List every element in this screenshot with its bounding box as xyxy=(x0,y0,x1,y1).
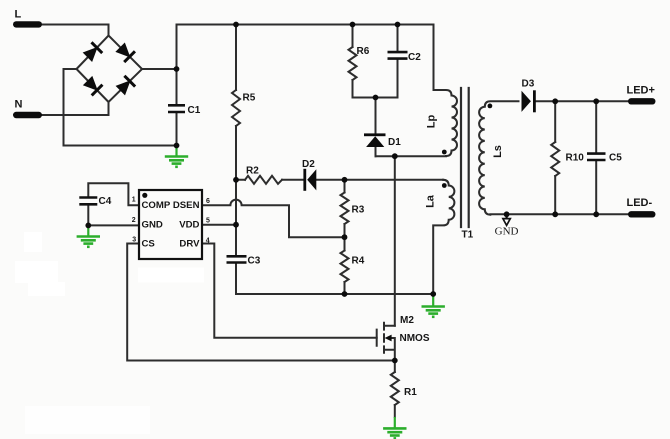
ground under C4 xyxy=(77,225,100,246)
svg-text:GND: GND xyxy=(495,226,519,238)
node VDD xyxy=(233,222,239,228)
node drain xyxy=(392,153,398,159)
node R3 R4 DSEN xyxy=(342,234,348,240)
wire R5 branch xyxy=(235,25,237,180)
svg-text:T1: T1 xyxy=(462,230,474,241)
node Ls GND xyxy=(504,211,510,217)
capacitor C5 plates xyxy=(587,154,606,160)
resistor R6 zigzag xyxy=(349,47,357,80)
diode bridge D-topright xyxy=(115,42,135,62)
svg-text:Ls: Ls xyxy=(492,145,504,158)
wire R4 leads xyxy=(344,237,346,294)
wire R6 leads xyxy=(353,25,398,98)
diode bridge D-bottomright xyxy=(115,76,135,96)
ground under C1 xyxy=(165,146,188,167)
node C1 bottom xyxy=(174,143,180,149)
white patch bottom left band xyxy=(25,406,150,434)
wire bridge right vertex to C1 node xyxy=(142,68,177,70)
ground GND arrow secondary xyxy=(503,214,510,225)
wire C1 branch vertical xyxy=(176,25,178,146)
resistor R2 zigzag xyxy=(245,176,282,184)
svg-text:CS: CS xyxy=(142,239,156,250)
node R6 top xyxy=(350,22,356,28)
svg-text:M2: M2 xyxy=(400,315,414,326)
node R5 top xyxy=(233,22,239,28)
resistor R3 zigzag xyxy=(341,193,349,225)
svg-text:D3: D3 xyxy=(522,79,535,90)
svg-text:NMOS: NMOS xyxy=(400,333,430,344)
wire VDD pin5 xyxy=(202,224,236,226)
svg-text:5: 5 xyxy=(206,217,210,224)
capacitor C1 plates xyxy=(168,105,185,112)
wire R3 leads xyxy=(344,180,346,237)
wire D2-R3 node to aux winding La xyxy=(345,179,444,181)
svg-text:C4: C4 xyxy=(99,196,112,207)
svg-text:R6: R6 xyxy=(357,46,370,57)
transistor M2 mosfet body xyxy=(377,323,395,361)
node dots xyxy=(85,22,599,364)
wire DRV pin4 to gate xyxy=(202,244,377,338)
wire GND pin2 xyxy=(88,224,139,226)
white patch left margin lower xyxy=(28,282,65,296)
wire C5 leads xyxy=(595,101,597,214)
aux winding La xyxy=(433,180,454,294)
svg-text:R2: R2 xyxy=(246,166,259,177)
resistor R4 zigzag xyxy=(341,251,349,283)
node C4 gnd xyxy=(85,223,91,229)
capacitor C2 plates xyxy=(388,52,408,59)
diode bridge D-topleft xyxy=(82,42,102,62)
wire bridge left vertex to bottom rail xyxy=(64,69,177,146)
wire DSEN pin6 with hop over R5 line xyxy=(202,200,345,238)
terminal LED- pad xyxy=(628,211,656,217)
svg-text:D2: D2 xyxy=(302,159,315,170)
svg-text:R5: R5 xyxy=(243,93,256,104)
secondary winding Ls xyxy=(479,101,518,214)
terminal L pad xyxy=(13,21,42,27)
wire D3 to LED+ xyxy=(537,100,629,102)
node R10 top xyxy=(552,98,558,104)
svg-text:1: 1 xyxy=(132,197,136,204)
capacitor C4 leads and pin1 wire xyxy=(88,183,139,225)
ground under R1 xyxy=(383,417,406,438)
node R4 bottom xyxy=(342,291,348,297)
svg-text:DSEN: DSEN xyxy=(173,200,200,211)
svg-text:GND: GND xyxy=(142,220,163,231)
pin 1 marker dot xyxy=(142,193,147,198)
node bridge+ C1 xyxy=(174,66,180,72)
white patch below IC xyxy=(138,268,204,283)
svg-text:4: 4 xyxy=(206,237,210,244)
svg-text:R1: R1 xyxy=(404,387,417,398)
svg-text:LED-: LED- xyxy=(627,197,653,209)
diode D2 xyxy=(303,169,316,191)
svg-text:C1: C1 xyxy=(188,105,201,116)
node C5 bottom xyxy=(593,211,599,217)
wire R5 node down to C3 xyxy=(236,180,345,294)
svg-text:LED+: LED+ xyxy=(627,85,655,97)
wire R2 leads xyxy=(236,179,345,181)
svg-text:3: 3 xyxy=(132,236,136,243)
resistor R5 zigzag xyxy=(232,90,240,126)
diode D1 xyxy=(364,133,386,147)
wire D1 leads xyxy=(375,98,377,157)
resistor R1 zigzag xyxy=(391,372,399,405)
bridge rectifier diamond wires xyxy=(77,36,143,103)
node R10 bottom xyxy=(552,211,558,217)
svg-text:C2: C2 xyxy=(408,52,421,63)
node D2 R3 xyxy=(342,177,348,183)
svg-text:6: 6 xyxy=(206,198,210,205)
svg-text:2: 2 xyxy=(132,217,136,224)
diode D3 xyxy=(522,90,536,112)
phase dot Ls xyxy=(488,104,493,109)
svg-text:R3: R3 xyxy=(352,205,365,216)
svg-text:R4: R4 xyxy=(352,256,365,267)
wire top rail to transformer xyxy=(177,24,434,26)
wire N to bridge bottom xyxy=(42,102,109,115)
diode bridge D-bottomleft xyxy=(83,76,103,96)
node C2 top xyxy=(395,22,401,28)
wire D1 anode to Lp bottom xyxy=(376,155,447,157)
phase dot Lp xyxy=(442,150,447,155)
node C5 top xyxy=(593,98,599,104)
wire drain vertical xyxy=(394,156,396,326)
transformer core lines xyxy=(461,88,469,227)
svg-text:Lp: Lp xyxy=(426,115,438,129)
svg-text:N: N xyxy=(15,99,23,111)
wire mid rail R4 to ground node xyxy=(345,293,434,295)
primary winding Lp xyxy=(434,25,458,157)
svg-text:L: L xyxy=(15,9,22,21)
node mid ground xyxy=(430,291,436,297)
transistor M2 body arrow xyxy=(385,335,392,342)
svg-text:C3: C3 xyxy=(248,256,261,267)
svg-text:COMP: COMP xyxy=(142,200,171,211)
wire L to bridge top xyxy=(42,25,109,36)
svg-text:C5: C5 xyxy=(609,153,622,164)
white patch left margin mid xyxy=(15,261,58,283)
wire R1 leads xyxy=(394,361,396,418)
capacitor C4 plates xyxy=(79,198,97,205)
phase dot La xyxy=(442,183,447,188)
wire Ls bottom to LED- xyxy=(490,213,628,215)
op-amp U1 controller IC box xyxy=(139,190,202,259)
svg-text:La: La xyxy=(425,194,437,208)
node source CS xyxy=(392,358,398,364)
ground mid rail xyxy=(422,294,445,317)
resistor R10 zigzag xyxy=(551,142,559,176)
wire R10 leads xyxy=(554,101,556,214)
terminal LED+ pad xyxy=(628,98,656,104)
node R2 left xyxy=(233,177,239,183)
svg-text:DRV: DRV xyxy=(179,239,200,250)
wire CS pin3 to source sense xyxy=(127,244,395,361)
svg-text:R10: R10 xyxy=(566,153,585,164)
wire C2 leads xyxy=(397,25,399,98)
node snubber D1 xyxy=(373,95,379,101)
terminal N pad xyxy=(13,112,42,118)
svg-text:D1: D1 xyxy=(388,137,401,148)
capacitor C3 plates xyxy=(227,256,247,262)
white patch left margin upper xyxy=(24,232,42,252)
svg-text:VDD: VDD xyxy=(179,220,199,231)
